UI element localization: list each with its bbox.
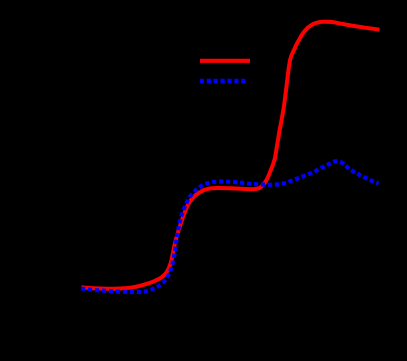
legend blue dashed line sample [200,79,246,83]
red solid curve [82,22,380,289]
blue dashed curve [81,161,379,292]
legend red solid line sample [200,59,250,63]
